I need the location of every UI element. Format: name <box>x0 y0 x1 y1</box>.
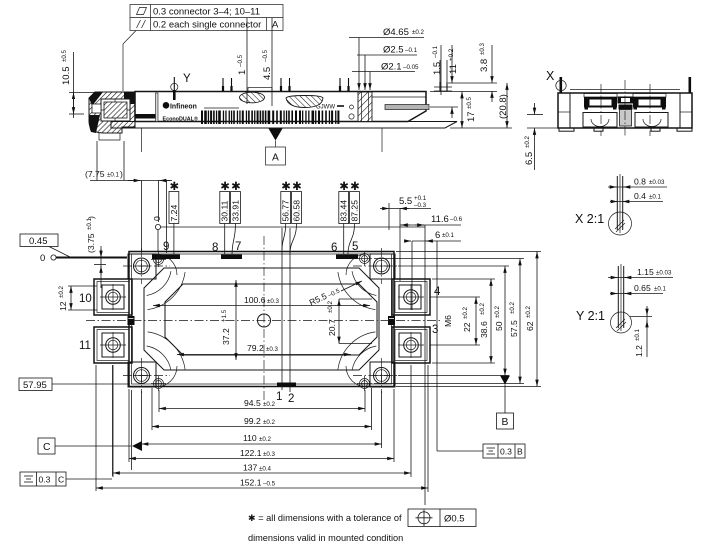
svg-text:✱ = all dimensions with a tole: ✱ = all dimensions with a tolerance of <box>248 513 402 523</box>
svg-text:4.5: 4.5 <box>262 67 273 80</box>
svg-text:–0.1: –0.1 <box>405 47 418 54</box>
lid outer octagon <box>144 268 379 370</box>
svg-text:1: 1 <box>276 391 282 403</box>
svg-text:): ) <box>86 216 96 219</box>
svg-text:11.6: 11.6 <box>431 214 449 225</box>
svg-text:0.3: 0.3 <box>500 447 512 457</box>
svg-text:2: 2 <box>288 393 294 405</box>
barcode <box>201 111 339 125</box>
dim R5.5 <box>308 285 342 308</box>
top pin dimension boxes <box>152 181 425 254</box>
svg-text:6: 6 <box>435 230 440 241</box>
svg-text:1.2: 1.2 <box>634 345 644 357</box>
svg-text:Infineon: Infineon <box>170 103 197 110</box>
svg-text:✱: ✱ <box>281 181 291 193</box>
svg-text:Ø0.5: Ø0.5 <box>444 514 465 525</box>
corner pad TR <box>346 254 395 280</box>
svg-text:): ) <box>120 169 123 179</box>
svg-text:6.5: 6.5 <box>524 152 535 165</box>
svg-text:33.91: 33.91 <box>230 200 240 222</box>
dim 110 <box>142 443 382 445</box>
svg-text:0.2 each single connector: 0.2 each single connector <box>153 20 261 31</box>
svg-text:3.8: 3.8 <box>479 59 490 72</box>
dim 152.1 <box>96 487 428 489</box>
svg-text:±0.2: ±0.2 <box>412 29 425 36</box>
front view top dimensions <box>237 18 512 128</box>
right dimensions <box>374 195 541 505</box>
svg-text:±0.2: ±0.2 <box>509 301 516 314</box>
svg-text:–0.6: –0.6 <box>450 216 463 223</box>
svg-text:10.5: 10.5 <box>61 67 72 86</box>
terminal block right <box>633 94 666 98</box>
svg-text:±0.2: ±0.2 <box>525 305 532 318</box>
svg-text:4: 4 <box>434 286 441 298</box>
svg-text:–0.1: –0.1 <box>432 45 439 58</box>
svg-text:0.65: 0.65 <box>634 283 651 293</box>
symmetry 0.3 B frame <box>437 444 525 458</box>
dim box 87.25 <box>348 181 360 254</box>
svg-text:1: 1 <box>237 70 248 75</box>
svg-text:5: 5 <box>352 241 358 253</box>
svg-text:20.7: 20.7 <box>327 319 337 336</box>
svg-text:–0.5: –0.5 <box>237 54 244 67</box>
svg-text:Ø2.5: Ø2.5 <box>383 45 404 56</box>
svg-text:GJWW: GJWW <box>316 105 335 111</box>
centerlines <box>600 84 602 136</box>
svg-text:79.2: 79.2 <box>247 343 264 353</box>
svg-text:±0.2: ±0.2 <box>263 419 276 426</box>
dim box 83.44 <box>339 181 350 254</box>
svg-text:±0.2: ±0.2 <box>479 302 486 315</box>
detail X pin <box>575 174 667 235</box>
svg-text:EconoDUAL®: EconoDUAL® <box>163 115 198 122</box>
X datum target <box>556 80 566 90</box>
projection lines left blocks down <box>95 365 97 491</box>
corner pad BL <box>128 362 177 389</box>
zero reference top <box>155 224 160 229</box>
svg-text:✱: ✱ <box>170 181 180 193</box>
baseplate <box>111 122 457 129</box>
svg-text:1.15: 1.15 <box>637 267 654 277</box>
side block 3 <box>392 327 430 363</box>
svg-text:±0.5: ±0.5 <box>61 49 68 62</box>
infineon logo <box>163 102 170 109</box>
svg-text:7: 7 <box>235 241 241 253</box>
flatness symbol <box>137 8 147 15</box>
body outline <box>129 252 394 387</box>
svg-text:0.3 connector 3–4; 10–11: 0.3 connector 3–4; 10–11 <box>153 6 260 17</box>
svg-text:17: 17 <box>466 111 477 122</box>
side block 10 <box>94 279 132 315</box>
svg-text:±0.2: ±0.2 <box>462 306 469 319</box>
svg-text:22: 22 <box>462 322 472 332</box>
datum C triangle <box>132 441 142 451</box>
left dimensions <box>19 141 172 491</box>
svg-text:✱: ✱ <box>339 181 349 193</box>
end view <box>524 69 692 170</box>
svg-text:38.6: 38.6 <box>479 321 489 338</box>
left connector housing <box>89 92 135 133</box>
bottom edge pin pad <box>277 383 296 388</box>
body outline <box>558 93 692 128</box>
svg-text:Ø4.65: Ø4.65 <box>383 27 409 38</box>
small pin hole crosses <box>151 259 166 261</box>
svg-text:56.77: 56.77 <box>281 200 291 222</box>
svg-text:6: 6 <box>331 242 337 254</box>
svg-text:±0.03: ±0.03 <box>656 270 672 277</box>
svg-text:5.5: 5.5 <box>399 196 412 207</box>
side block 11 <box>94 327 132 363</box>
svg-text:±0.3: ±0.3 <box>263 451 276 458</box>
dim 99.2 <box>152 426 372 428</box>
svg-text:110: 110 <box>243 433 257 443</box>
svg-text:±0.3: ±0.3 <box>266 346 279 353</box>
corner circle crosshairs <box>134 265 149 267</box>
svg-text:0.45: 0.45 <box>29 236 48 247</box>
dim box 33.91 <box>230 181 241 254</box>
svg-text:122.1: 122.1 <box>240 448 262 458</box>
lower pocket left <box>583 113 617 128</box>
datum A triangle <box>269 129 283 141</box>
svg-text:±0.2: ±0.2 <box>259 436 272 443</box>
svg-text:±0.1: ±0.1 <box>107 172 120 179</box>
dim box 56.77 <box>281 181 292 250</box>
57.95 box <box>19 378 52 391</box>
svg-text:57.95: 57.95 <box>23 380 47 391</box>
corner wing arcs TL <box>147 271 185 309</box>
svg-text:37.2: 37.2 <box>221 328 231 345</box>
corner pins <box>560 77 563 93</box>
svg-text:B: B <box>517 447 523 457</box>
screw hole section hatched <box>358 92 372 122</box>
svg-text:10: 10 <box>79 293 92 305</box>
svg-text:–0.05: –0.05 <box>403 64 419 71</box>
svg-text:7.24: 7.24 <box>169 205 179 222</box>
svg-text:±0.3: ±0.3 <box>267 298 280 305</box>
svg-text:+0.1: +0.1 <box>414 195 427 202</box>
svg-text:±0.4: ±0.4 <box>259 466 272 473</box>
svg-text:Y: Y <box>183 73 191 85</box>
svg-text:✱: ✱ <box>231 181 241 193</box>
side block 4 <box>392 279 430 315</box>
pins pair 9 <box>174 77 447 100</box>
center column <box>620 110 632 127</box>
svg-text:±0.2: ±0.2 <box>58 285 65 298</box>
callout leader <box>123 31 136 92</box>
svg-text:0: 0 <box>152 216 162 221</box>
svg-text:±0.2: ±0.2 <box>494 305 501 318</box>
svg-text:C: C <box>58 475 64 485</box>
centerline vertical <box>263 236 265 400</box>
svg-text:✱: ✱ <box>220 181 230 193</box>
svg-text:M6: M6 <box>443 315 453 327</box>
svg-text:–0.3: –0.3 <box>414 202 427 209</box>
svg-text:✱: ✱ <box>292 181 302 193</box>
bottom dimensions <box>96 365 428 492</box>
svg-text:±0.5: ±0.5 <box>466 96 473 109</box>
svg-text:±0.3: ±0.3 <box>479 42 486 55</box>
body face left edge band <box>156 93 159 122</box>
svg-text:83.44: 83.44 <box>339 200 349 222</box>
svg-text:152.1: 152.1 <box>240 478 262 488</box>
svg-text:±0.2: ±0.2 <box>327 300 334 313</box>
svg-text:±0.1: ±0.1 <box>442 232 455 239</box>
svg-text:±0.1: ±0.1 <box>649 194 662 201</box>
svg-text:X: X <box>546 69 555 83</box>
pin 1 2 leader lines <box>281 228 283 390</box>
svg-text:C: C <box>43 442 51 453</box>
dim 122.1 <box>129 458 394 460</box>
corner pad TL <box>128 254 177 279</box>
tolerance callout box <box>123 5 283 92</box>
svg-text:✱: ✱ <box>350 181 360 193</box>
svg-text:+1.5: +1.5 <box>221 309 228 322</box>
detail Y pin <box>576 264 673 357</box>
dim box 60.58 <box>290 181 302 254</box>
svg-text:X 2:1: X 2:1 <box>575 212 604 226</box>
center block <box>618 97 634 104</box>
lid inner octagon <box>165 284 377 355</box>
Y datum target <box>171 83 178 90</box>
svg-text:0.4: 0.4 <box>634 191 646 201</box>
datum B triangle <box>500 376 510 385</box>
lower pocket right <box>635 113 668 128</box>
dim box 7.24 <box>169 181 180 254</box>
projection lines <box>141 128 143 152</box>
svg-text:99.2: 99.2 <box>244 416 261 426</box>
svg-text:8: 8 <box>212 242 218 254</box>
aux contact pad left <box>128 316 135 325</box>
top view <box>79 228 441 405</box>
svg-text:±0.2: ±0.2 <box>524 135 531 148</box>
svg-text:0: 0 <box>40 253 45 264</box>
svg-text:B: B <box>502 417 509 428</box>
svg-text:±0.1: ±0.1 <box>654 286 667 293</box>
svg-text:+0.2: +0.2 <box>448 48 455 61</box>
svg-text:Y 2:1: Y 2:1 <box>576 309 605 323</box>
svg-text:3: 3 <box>432 324 438 336</box>
corner pad BR <box>346 362 395 389</box>
extension lines <box>158 390 160 412</box>
svg-text:30.11: 30.11 <box>220 200 230 221</box>
svg-text:12: 12 <box>58 301 68 311</box>
svg-text:A: A <box>272 153 279 164</box>
projection verticals <box>399 209 401 282</box>
svg-text:dimensions valid in mounted co: dimensions valid in mounted condition <box>248 533 403 543</box>
datum C box <box>38 438 55 454</box>
svg-text:±0.2: ±0.2 <box>263 401 276 408</box>
svg-text:100.6: 100.6 <box>244 295 266 305</box>
corner wing arcs TR <box>338 271 376 309</box>
svg-text:87.25: 87.25 <box>349 200 359 222</box>
svg-text:11: 11 <box>79 340 91 352</box>
terminal block left <box>584 94 617 98</box>
svg-text:(7.75: (7.75 <box>85 169 105 179</box>
footnote <box>248 509 476 543</box>
svg-text:11: 11 <box>448 64 459 74</box>
dim box 30.11 <box>220 181 231 254</box>
svg-text:50: 50 <box>494 321 504 331</box>
corner centerlines <box>141 248 143 284</box>
front view <box>61 49 457 165</box>
svg-text:Ø2.1: Ø2.1 <box>381 62 402 73</box>
block circle crosshairs <box>100 296 126 298</box>
svg-text:0.8: 0.8 <box>634 177 646 187</box>
svg-text:0.3: 0.3 <box>39 475 51 485</box>
0.45 box <box>20 234 58 247</box>
module body <box>135 92 426 122</box>
svg-text:–0.5: –0.5 <box>263 481 276 488</box>
right recess with pin <box>372 96 426 98</box>
molded recess left <box>240 92 265 103</box>
dim 137 <box>113 472 411 474</box>
housing pin <box>135 114 156 119</box>
svg-text:60.58: 60.58 <box>291 200 301 222</box>
centerline horizontal <box>86 320 440 322</box>
dim 94.5 <box>159 408 365 410</box>
projection verticals to hole <box>439 60 441 82</box>
svg-text:A: A <box>272 20 279 31</box>
svg-text:62: 62 <box>525 321 535 331</box>
parallelism symbol <box>137 20 146 28</box>
symmetry 0.3 C frame <box>20 472 112 486</box>
svg-text:57.5: 57.5 <box>509 320 519 337</box>
svg-text:137: 137 <box>243 463 258 473</box>
feet <box>559 128 574 131</box>
svg-text:±0.1: ±0.1 <box>634 328 641 341</box>
svg-text:94.5: 94.5 <box>244 398 261 408</box>
svg-text:–0.5: –0.5 <box>262 49 269 62</box>
center hole <box>258 314 271 327</box>
svg-text:±0.03: ±0.03 <box>649 179 665 186</box>
X Y detail views <box>575 174 673 357</box>
aux contact pad right <box>388 316 395 325</box>
molded recess right <box>286 96 323 108</box>
datum B box <box>497 413 514 429</box>
svg-text:(3.75: (3.75 <box>86 233 96 253</box>
corner wing arcs BR <box>338 332 376 370</box>
corner wing arcs BL <box>147 332 185 370</box>
top edge pin pads <box>152 255 180 260</box>
